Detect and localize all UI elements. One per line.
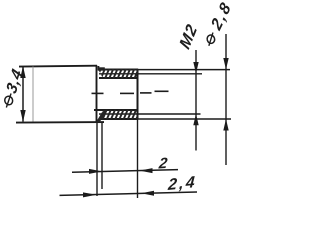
svg-text:2,4: 2,4 — [167, 173, 198, 194]
